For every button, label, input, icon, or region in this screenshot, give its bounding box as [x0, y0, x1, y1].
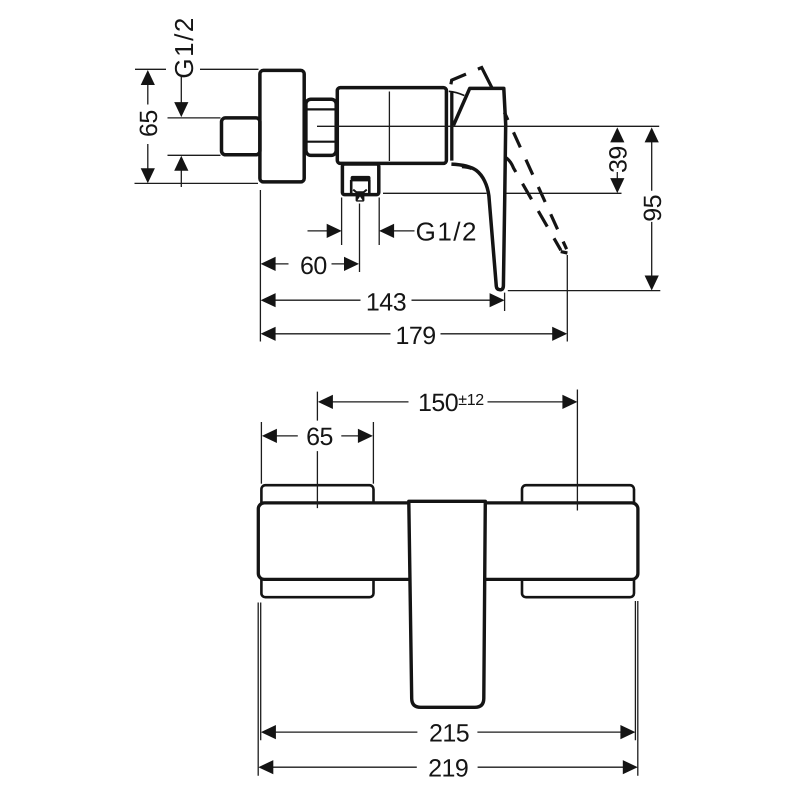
dim 39 arrow top [610, 127, 624, 142]
dim 215 arrow left [261, 725, 276, 739]
dim 150 arrow left [318, 395, 333, 409]
extension line outlet right [378, 198, 380, 246]
svg-text:60: 60 [300, 252, 327, 280]
dim 219 arrow right [623, 760, 638, 774]
dim 39 arrow bottom [610, 178, 624, 193]
dim 143 arrow left [261, 293, 276, 307]
escutcheon dome top arc [449, 91, 465, 95]
body vertical center line [388, 92, 390, 162]
escutcheon bottom lip [462, 167, 472, 169]
dim 95 arrow bottom [645, 276, 659, 291]
svg-text:219: 219 [428, 755, 468, 783]
dim 65 line [147, 84, 149, 169]
svg-text:65: 65 [135, 110, 163, 137]
dim 143 arrow right [490, 293, 505, 307]
dim 150 arrow right [562, 395, 577, 409]
aerator white triangle [358, 197, 363, 201]
dim 60 arrow left [261, 257, 276, 271]
dim 39 tails [616, 172, 618, 179]
dim 65 arrow top [141, 70, 155, 85]
G1/2 arrow down [174, 102, 188, 117]
union hex nut [306, 99, 336, 155]
G1/2 arrow up [174, 156, 188, 171]
outlet hex shoulder bar [351, 176, 371, 182]
dim 179 line [275, 333, 553, 335]
dim 219 line [273, 766, 624, 768]
extension line outlet left [341, 198, 343, 246]
svg-text:143: 143 [366, 289, 406, 317]
handle open position tip cap [561, 252, 568, 253]
dim 179 arrow left [261, 327, 276, 341]
dim 65 line bottom view [276, 435, 358, 437]
outlet callout arrow right [327, 224, 342, 238]
handle outline [451, 88, 505, 289]
dim 219 arrow left [258, 760, 273, 774]
wall nipple (square inlet fitting, side view) [222, 118, 260, 155]
handle white fill [451, 88, 506, 290]
extension line 219 left [257, 603, 259, 776]
svg-text:215: 215 [429, 719, 469, 747]
TOP VIEW [135, 16, 668, 350]
hex nut facet line lower [306, 141, 336, 143]
extension line flange bottom [135, 182, 259, 184]
svg-text:G1/2: G1/2 [169, 16, 199, 78]
hex nut facet line upper [306, 108, 336, 110]
extension line flange top [135, 68, 259, 70]
outlet G1/2 callout lines [308, 230, 415, 232]
left wall union [261, 485, 373, 597]
dim 65 arrow right [358, 429, 373, 443]
extension line open handle tip vertical [566, 255, 568, 342]
extension line handle tip [504, 293, 506, 311]
extension line 150 left (with gap for 65 text) [316, 392, 318, 509]
handle open position dashed outer edge [504, 112, 566, 249]
extension line 95 bottom [508, 290, 661, 292]
extension line flange left vertical [259, 190, 261, 342]
extension line outlet center [359, 204, 361, 273]
outlet aerator nub [356, 195, 365, 202]
center axis line [317, 125, 659, 127]
dim 215 line [275, 731, 621, 733]
extension line 215 left [260, 603, 262, 741]
dim 95 tails [651, 142, 653, 276]
dim 60 line [275, 263, 345, 265]
wall plate [258, 503, 638, 580]
outlet connector housing [342, 164, 378, 195]
extension line nipple bottom [168, 154, 221, 156]
dim 215 arrow right [620, 725, 635, 739]
outlet hex chamfer [353, 190, 367, 193]
wall escutcheon flange [260, 70, 304, 181]
svg-text:39: 39 [605, 146, 633, 173]
dim 65 arrow bottom [141, 168, 155, 183]
svg-text:G1/2: G1/2 [416, 216, 478, 246]
dim 60 arrow right [344, 257, 359, 271]
G1/2 leader line [180, 76, 182, 188]
extension line 215 right [634, 601, 636, 740]
extension line nipple top [168, 117, 221, 119]
extension line 39 bottom [383, 192, 622, 194]
dim 143 line [275, 299, 491, 301]
svg-text:95: 95 [639, 195, 667, 222]
escutcheon dome left edge [450, 92, 453, 160]
outlet callout arrow left [379, 224, 394, 238]
dim 95 arrow top [645, 127, 659, 142]
extension line 65 right [372, 422, 374, 484]
svg-text:179: 179 [395, 322, 435, 350]
svg-text:65: 65 [306, 423, 333, 451]
BOTTOM VIEW [258, 389, 638, 783]
extension line 219 right [637, 601, 639, 776]
extension line 150 right [576, 390, 578, 511]
dim 65 arrow left [262, 429, 277, 443]
right wall union [522, 485, 634, 597]
extension line 65 left [260, 422, 262, 484]
mixer body [337, 88, 446, 164]
outlet hex facet right [368, 180, 371, 193]
dim 179 arrow right [552, 327, 567, 341]
handle open position dashed inner edge [506, 158, 561, 251]
mixer body front [409, 501, 486, 707]
outlet hex facet left [350, 180, 353, 193]
handle raised position dashes (upper) [451, 74, 466, 84]
dim 150 line [332, 401, 563, 403]
